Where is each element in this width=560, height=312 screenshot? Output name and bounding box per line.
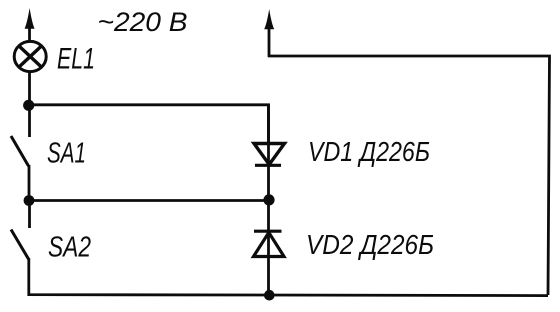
svg-text:~220 В: ~220 В <box>98 7 188 37</box>
svg-text:SA1: SA1 <box>47 138 86 170</box>
svg-text:EL1: EL1 <box>57 43 95 76</box>
svg-text:VD1 Д226Б: VD1 Д226Б <box>308 136 430 167</box>
svg-text:VD2 Д226Б: VD2 Д226Б <box>306 229 434 260</box>
svg-text:SA2: SA2 <box>48 232 91 264</box>
